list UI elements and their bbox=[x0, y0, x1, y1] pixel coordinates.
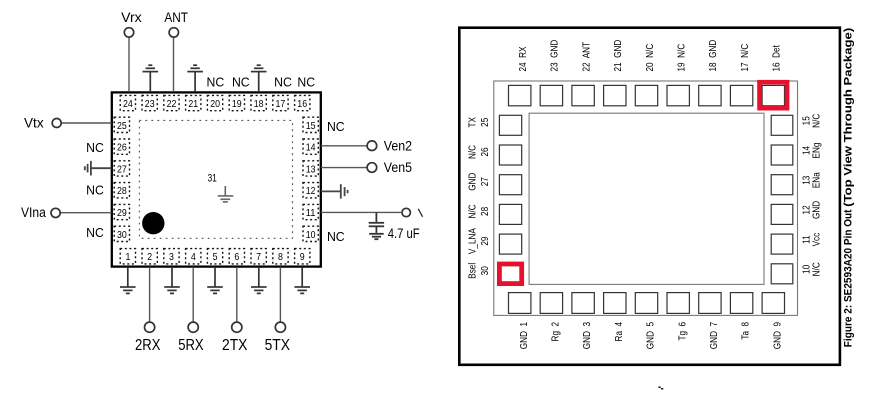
svg-text:Tg 6: Tg 6 bbox=[675, 322, 687, 341]
svg-text:1: 1 bbox=[125, 251, 130, 263]
svg-text:12: 12 bbox=[306, 185, 316, 197]
svg-text:11: 11 bbox=[306, 207, 316, 219]
svg-text:Figure 2: SE2593A20 Pin Out: Figure 2: SE2593A20 Pin Out bbox=[842, 207, 854, 348]
svg-text:10: 10 bbox=[306, 229, 316, 241]
svg-text:Vrx: Vrx bbox=[121, 9, 142, 25]
svg-text:21: 21 bbox=[188, 98, 198, 110]
svg-text:14: 14 bbox=[306, 142, 316, 154]
svg-text:VIna: VIna bbox=[21, 204, 46, 220]
svg-text:30: 30 bbox=[117, 229, 127, 241]
svg-text:Vcc: Vcc bbox=[809, 233, 821, 247]
svg-text:4: 4 bbox=[191, 251, 196, 263]
svg-text:23 GND: 23 GND bbox=[548, 39, 560, 71]
svg-text:NC: NC bbox=[232, 74, 250, 89]
svg-text:16: 16 bbox=[297, 98, 307, 110]
svg-text:GND 3: GND 3 bbox=[580, 322, 592, 349]
svg-text:5RX: 5RX bbox=[178, 337, 204, 354]
svg-text:20: 20 bbox=[210, 98, 220, 110]
svg-text:19: 19 bbox=[232, 98, 242, 110]
svg-text:N/C: N/C bbox=[809, 262, 821, 276]
svg-text:20 N/C: 20 N/C bbox=[643, 44, 655, 72]
svg-text:18 GND: 18 GND bbox=[706, 39, 718, 71]
svg-text:Rg 2: Rg 2 bbox=[548, 322, 560, 342]
svg-text:GND: GND bbox=[465, 172, 477, 190]
svg-text:31: 31 bbox=[207, 173, 217, 185]
svg-text:8: 8 bbox=[278, 251, 283, 263]
svg-text:27: 27 bbox=[117, 163, 127, 175]
svg-text:GND 9: GND 9 bbox=[770, 322, 782, 349]
svg-text:17 N/C: 17 N/C bbox=[738, 44, 750, 72]
svg-text:27: 27 bbox=[478, 177, 490, 186]
svg-text:GND 7: GND 7 bbox=[707, 322, 719, 349]
svg-text:N/C: N/C bbox=[809, 114, 821, 128]
svg-text:9: 9 bbox=[300, 251, 305, 263]
svg-text:22 ANT: 22 ANT bbox=[579, 42, 591, 72]
svg-text:V_LNA: V_LNA bbox=[465, 228, 477, 255]
svg-text:19 N/C: 19 N/C bbox=[674, 44, 686, 72]
svg-text:25: 25 bbox=[478, 118, 490, 127]
svg-text:30: 30 bbox=[478, 266, 490, 275]
svg-text:GND 1: GND 1 bbox=[517, 322, 529, 349]
svg-text:16 Det: 16 Det bbox=[770, 45, 782, 72]
svg-text:Ven2: Ven2 bbox=[384, 137, 412, 153]
svg-text:N/C: N/C bbox=[465, 145, 477, 159]
svg-text:21 GND: 21 GND bbox=[611, 39, 623, 71]
svg-text:Ta 8: Ta 8 bbox=[739, 322, 751, 340]
svg-text:3: 3 bbox=[169, 251, 174, 263]
svg-text:28: 28 bbox=[478, 207, 490, 216]
svg-text:23: 23 bbox=[145, 98, 155, 110]
svg-text:NC: NC bbox=[86, 183, 104, 198]
svg-text:N/C: N/C bbox=[465, 204, 477, 218]
svg-text:2: 2 bbox=[147, 251, 152, 263]
svg-text:17: 17 bbox=[276, 98, 286, 110]
svg-text:22: 22 bbox=[167, 98, 177, 110]
svg-text:NC: NC bbox=[86, 140, 104, 155]
svg-text:29: 29 bbox=[117, 207, 127, 219]
svg-text:NC: NC bbox=[327, 229, 345, 244]
svg-text:ANT: ANT bbox=[164, 9, 188, 25]
svg-text:NC: NC bbox=[207, 74, 225, 89]
svg-text:NC: NC bbox=[274, 74, 292, 89]
svg-text:13: 13 bbox=[306, 163, 316, 175]
svg-text:Ra 4: Ra 4 bbox=[612, 322, 624, 342]
svg-text:26: 26 bbox=[117, 142, 127, 154]
svg-text:29: 29 bbox=[478, 237, 490, 246]
svg-text:Bsel: Bsel bbox=[465, 263, 477, 279]
svg-text:2RX: 2RX bbox=[135, 337, 161, 354]
svg-text:26: 26 bbox=[478, 147, 490, 156]
svg-text:NC: NC bbox=[86, 225, 104, 240]
svg-text:2TX: 2TX bbox=[222, 337, 248, 354]
svg-text:28: 28 bbox=[117, 185, 127, 197]
svg-text:Ven5: Ven5 bbox=[384, 159, 412, 175]
svg-text:GND 5: GND 5 bbox=[644, 322, 656, 349]
svg-text:ENg: ENg bbox=[809, 143, 821, 159]
svg-text:24 RX: 24 RX bbox=[516, 46, 528, 72]
svg-text:18: 18 bbox=[254, 98, 264, 110]
svg-text:GND: GND bbox=[809, 201, 821, 219]
svg-text:24: 24 bbox=[123, 98, 133, 110]
svg-text:TX: TX bbox=[465, 116, 477, 127]
svg-text:15: 15 bbox=[306, 120, 316, 132]
svg-text:Vtx: Vtx bbox=[24, 114, 44, 130]
svg-text:25: 25 bbox=[117, 120, 127, 132]
svg-text:(Top View Through Package): (Top View Through Package) bbox=[842, 27, 854, 206]
svg-text:ENa: ENa bbox=[809, 172, 821, 189]
svg-text:NC: NC bbox=[327, 119, 345, 134]
svg-text:5TX: 5TX bbox=[265, 337, 291, 354]
svg-text:6: 6 bbox=[234, 251, 239, 263]
svg-text:NC: NC bbox=[297, 74, 315, 89]
svg-text:5: 5 bbox=[213, 251, 218, 263]
svg-text:4.7 uF: 4.7 uF bbox=[388, 225, 420, 241]
svg-text:7: 7 bbox=[256, 251, 261, 263]
